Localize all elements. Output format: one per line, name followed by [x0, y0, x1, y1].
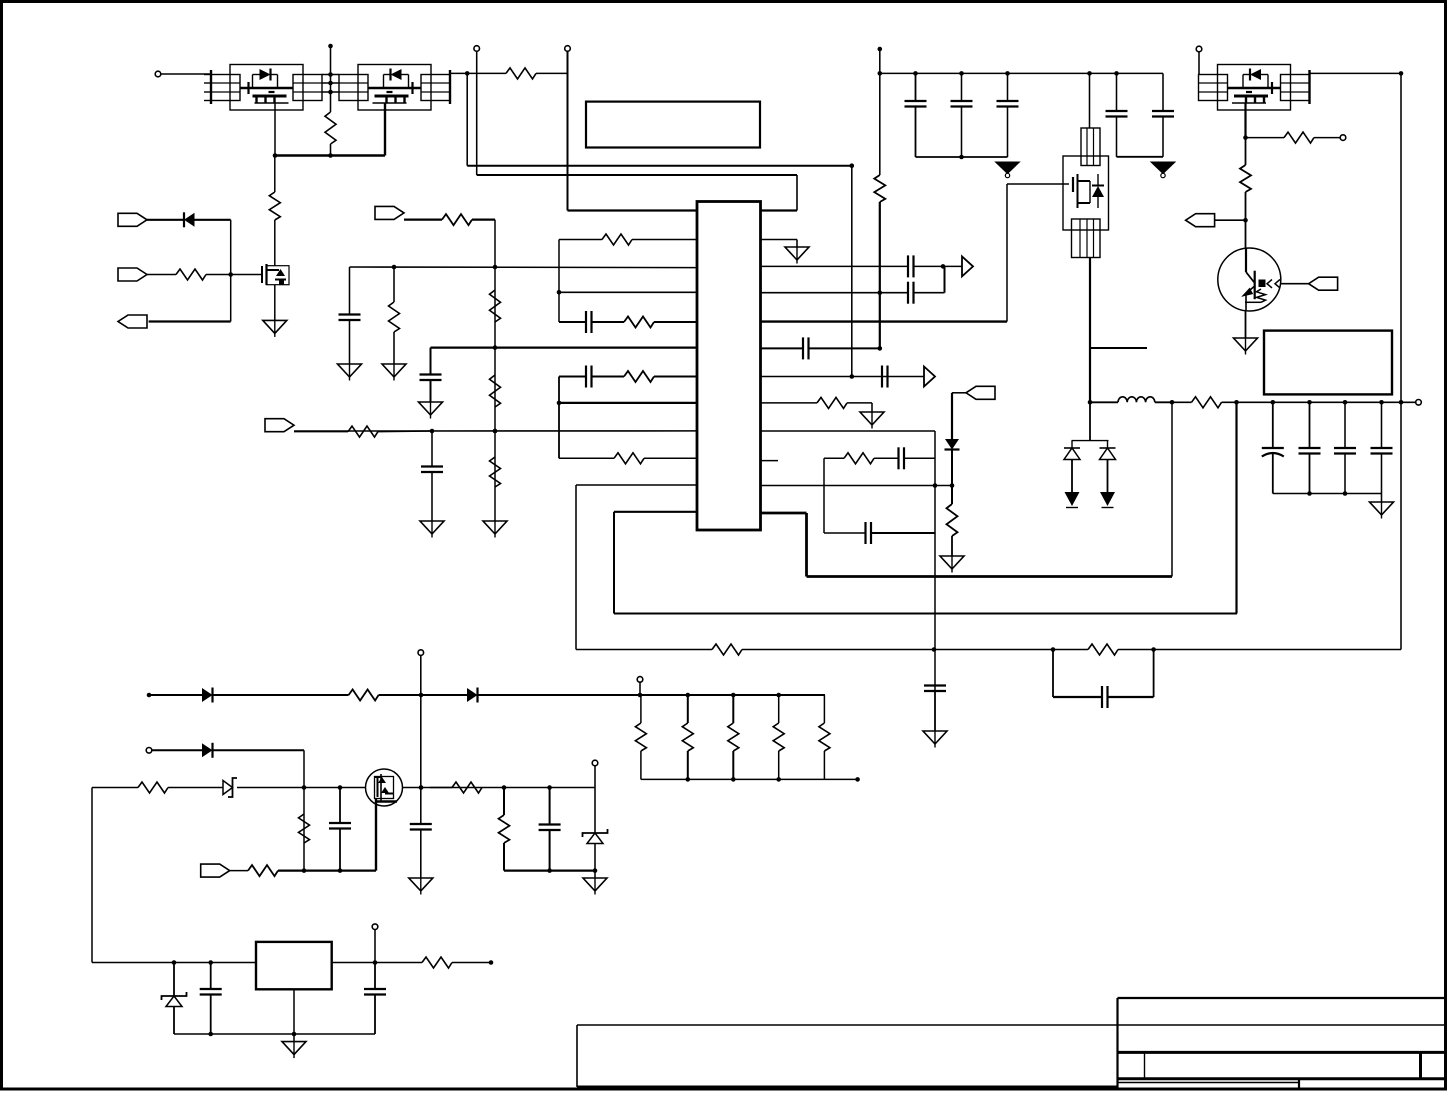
wire R4 to terminal leg: [536, 72, 568, 74]
wire VG_T down: [594, 766, 596, 788]
ground IC pin2R: [785, 247, 809, 264]
junction bus B pin8: [557, 401, 562, 406]
wire C26 top: [210, 963, 212, 990]
resistor R28: [452, 782, 482, 793]
junction divider fb: [493, 429, 498, 434]
wire rail node to R23: [1172, 401, 1192, 403]
terminal TP2: [565, 46, 571, 52]
junction cap2 tap: [959, 71, 964, 76]
capacitor C8: [803, 337, 809, 359]
wire node G1 to connector: [149, 320, 231, 322]
wire IC pin4: [559, 291, 697, 293]
load R4 bottom leg: [778, 751, 780, 779]
resistor R7: [624, 371, 654, 382]
net BOOT horizontal: [467, 165, 852, 167]
wire C24 top: [339, 788, 341, 824]
ground input caps 2: [1151, 162, 1175, 178]
wire D1 to node G1: [195, 219, 231, 221]
wire pin3 net corner down: [349, 267, 351, 315]
wire SD down: [951, 393, 953, 439]
wire Q5 base right: [1280, 283, 1309, 285]
junction vg bus: [547, 868, 552, 873]
input cap leg 2b: [961, 107, 963, 158]
junction pin7R boot end: [850, 374, 855, 379]
capacitor C14: [905, 101, 927, 107]
wire C25 down: [549, 830, 551, 871]
wire VIN to Q3: [1089, 73, 1091, 128]
node AUX1: [147, 693, 152, 698]
capacitor C22: [1371, 448, 1393, 454]
ground C12: [923, 731, 947, 748]
outcap leg 3b: [1344, 454, 1346, 494]
signal arrow OUT2: [924, 367, 935, 387]
junction outcap 3: [1343, 400, 1348, 405]
wire R15 corner: [847, 402, 872, 404]
reg output row: [332, 962, 422, 964]
diode D4: [1100, 441, 1116, 508]
resistor RL2: [682, 723, 693, 751]
wire IC pin8: [559, 402, 697, 404]
wire TP3 down: [1198, 52, 1200, 75]
load R2 bottom leg: [687, 751, 689, 779]
transistor Q5: [1218, 248, 1281, 311]
wire R16 to C10: [874, 457, 899, 459]
junction load rail 4: [776, 693, 781, 698]
diode D6: [467, 688, 478, 703]
wire IC pin6R: [761, 347, 804, 349]
wire PWM_L to R2: [147, 274, 176, 276]
pin bus right of Q4: [1308, 70, 1310, 104]
terminal LOAD_T: [637, 677, 643, 683]
signal arrow OUT1: [962, 256, 973, 276]
dual MOSFET package Q1B: [339, 65, 450, 111]
input cap leg 4b: [1116, 117, 1118, 157]
wire R10 to divider top: [472, 219, 495, 221]
wire C3 to ground: [431, 472, 433, 521]
wire C10 to comp vertical: [904, 457, 935, 459]
junction rail at sense: [1399, 400, 1404, 405]
capacitor C4: [339, 315, 361, 321]
resistor R19: [1088, 644, 1118, 655]
wire Q3 source to diode bar: [1089, 402, 1091, 440]
wire vg leg 2: [549, 788, 551, 825]
wire loop leg A down: [575, 485, 577, 650]
wire C27 top: [374, 963, 376, 990]
capacitor C24: [329, 823, 351, 829]
wire AUX_T down: [420, 656, 422, 824]
junction vg node 1: [502, 785, 507, 790]
wire IC pin5 cap leg: [559, 321, 586, 323]
junction pin4R at VIN leg: [878, 290, 883, 295]
terminal REG_T: [372, 924, 378, 930]
resistor R17: [947, 504, 958, 536]
comp row RC top leg: [824, 457, 844, 459]
wire Z2 down: [594, 844, 596, 871]
wire IC pin3R: [761, 265, 909, 267]
pin row wires between packages: [322, 75, 339, 93]
resistor R22: [1240, 165, 1251, 192]
junction aux2 at gate row: [302, 785, 307, 790]
inductor L1: [1118, 397, 1155, 403]
title block row line 1: [1118, 1024, 1447, 1026]
wire IC pin7R: [761, 376, 925, 378]
wire J1 to Q-module bus: [161, 73, 211, 75]
ground R17: [940, 556, 964, 573]
junction comp at return: [932, 647, 937, 652]
zener Z3: [162, 992, 187, 1007]
input cap leg 1b: [915, 107, 917, 158]
resistor R2: [176, 269, 206, 280]
wire C23 to ground: [420, 830, 422, 879]
terminal AUX_T: [418, 650, 424, 656]
comp vertical left: [823, 458, 825, 533]
resistor R9: [348, 426, 378, 437]
wire EN to R27: [230, 870, 248, 872]
aux rail 2 a: [152, 749, 202, 751]
junction RC par left: [1051, 647, 1056, 652]
net FB return (y650) left: [576, 649, 712, 651]
aux rail 2 b: [213, 749, 305, 751]
wire C7 right: [914, 292, 945, 294]
resistor R21: [1284, 132, 1314, 143]
junction base node: [1243, 218, 1248, 223]
wire IC pin1 left: [568, 209, 698, 211]
junction out node: [941, 264, 946, 269]
wire pin1R up: [796, 175, 798, 211]
wire vg leg 3: [594, 788, 596, 834]
junction divider pin3: [493, 265, 498, 270]
resistor R27: [248, 865, 278, 876]
zener Z1: [223, 778, 237, 797]
pin bus left of Q1A: [204, 70, 211, 104]
source bus of Q1A/Q1B: [275, 154, 385, 157]
wire gate feed right: [1007, 183, 1069, 185]
capacitor C23: [410, 824, 432, 830]
ground divider: [483, 521, 507, 538]
capacitor C27: [364, 989, 386, 995]
input cap leg 3b: [1007, 107, 1009, 158]
wire loop leg B down: [613, 512, 615, 614]
load bank bus: [641, 778, 858, 780]
capacitor C11: [866, 522, 872, 544]
title block cell divider right: [1419, 1052, 1422, 1078]
wire pin10 from bus B: [559, 457, 614, 459]
net PGND return (y613): [614, 613, 1237, 615]
junction vg bus end: [593, 868, 598, 873]
wire PGND leg up: [1235, 402, 1237, 613]
node VIN tap: [878, 47, 883, 52]
junction VIN at Q3 feed: [1087, 71, 1092, 76]
junction comp mid: [933, 483, 938, 488]
junction reg in 2: [208, 960, 213, 965]
terminal J1: [155, 71, 161, 77]
Q3 bottom pin block: [1072, 219, 1101, 258]
wire IC pin3 long: [350, 266, 698, 269]
reg input row: [92, 962, 256, 964]
diode D1: [184, 212, 195, 227]
capacitor C1: [586, 311, 592, 333]
connector PWM_H: [118, 213, 147, 226]
ground C4: [338, 364, 362, 381]
junction bus A pin4: [557, 290, 562, 295]
junction FB node 1: [430, 429, 435, 434]
junction load rail 1: [638, 693, 643, 698]
junction outcap 1: [1271, 400, 1276, 405]
load R4 top leg: [778, 695, 780, 723]
capacitor C19 (polarized): [1262, 448, 1284, 457]
divider vertical: [494, 220, 496, 521]
ground C5: [419, 402, 443, 419]
load R3 top leg: [732, 695, 734, 723]
outcap bus to ground: [1381, 494, 1383, 503]
MOSFET package Q3: [1063, 156, 1109, 230]
resistor R3: [269, 192, 280, 220]
junction outcap 4: [1379, 400, 1384, 405]
connector PWM_L: [118, 268, 147, 281]
junction load bus 1: [686, 777, 691, 782]
junction pin row 3: [328, 90, 333, 95]
load R1 top leg: [640, 695, 642, 723]
terminal TP4: [1340, 135, 1346, 141]
load R3 bottom leg: [732, 751, 734, 779]
junction gate row 2: [338, 785, 343, 790]
resistor R12: [490, 375, 501, 407]
junction outcap bus 2: [1307, 491, 1312, 496]
junction boot corner: [850, 163, 855, 168]
resistor R15: [817, 397, 847, 408]
wire IC pin2 stub: [632, 239, 697, 241]
wire R30 to end: [452, 962, 489, 964]
comp bottom row left: [824, 532, 866, 534]
capacitor C12: [924, 686, 946, 692]
wire C26 bottom: [210, 995, 212, 1035]
dual MOSFET package Q1A: [211, 65, 322, 111]
wire Z3 top: [173, 963, 175, 997]
wire comp cap down leg: [934, 685, 936, 687]
outcap leg 4: [1381, 402, 1383, 448]
title block cell divider left: [1144, 1052, 1146, 1078]
wire IC pin12R: [761, 512, 807, 515]
net FB return (y650) mid: [742, 649, 1053, 651]
wire Q4 source down: [1244, 103, 1246, 138]
junction load rail 3: [731, 693, 736, 698]
resistor R6: [624, 317, 654, 328]
stub Q3 mid: [1090, 347, 1147, 349]
wire Q1B source down: [384, 103, 386, 156]
junction node G1: [228, 272, 233, 277]
load R2 top leg: [687, 695, 689, 723]
diode D5: [202, 688, 213, 703]
diode D3: [1064, 441, 1080, 508]
gate row c: [237, 787, 366, 789]
wire Q2 source down: [274, 285, 276, 321]
junction rail node B: [1234, 400, 1239, 405]
junction cap bus: [959, 155, 964, 160]
wire SD to corner: [952, 392, 966, 394]
junction Q4 out corner: [1399, 71, 1404, 76]
outcap leg 1: [1272, 402, 1274, 448]
resistor R25: [138, 782, 168, 793]
aux rail 1 d: [478, 694, 826, 696]
node load bus end: [855, 777, 860, 782]
wire pin7 cap leg: [559, 376, 586, 378]
ground C23: [409, 878, 433, 895]
resistor R16: [844, 453, 874, 464]
junction RC par right: [1151, 647, 1156, 652]
wire C1 to R6: [592, 321, 625, 323]
load R5 top leg: [823, 695, 825, 723]
junction reg bus 1: [208, 1032, 213, 1037]
node reg out end: [489, 960, 494, 965]
junction rail node A: [1170, 400, 1175, 405]
wire IC pin4R: [761, 292, 909, 294]
wire R17 to ground: [951, 536, 953, 556]
load R5 bottom leg: [823, 751, 825, 779]
wire to R21: [1246, 137, 1285, 139]
capacitor C15: [951, 101, 973, 107]
outcap ground bus: [1273, 493, 1382, 495]
wire R8 to IC pin10: [644, 457, 697, 459]
terminal TP1: [474, 46, 480, 52]
Q3 top pin block: [1081, 128, 1100, 166]
capacitor C21: [1334, 448, 1356, 454]
wire IC pin11R: [761, 485, 953, 487]
input cap leg 3: [1007, 73, 1009, 101]
wire pin4R up leg: [944, 266, 946, 292]
comp vertical right: [934, 431, 936, 731]
junction outcap bus 3: [1343, 491, 1348, 496]
capacitor C16: [997, 101, 1019, 107]
wire Q1A source down: [274, 103, 276, 156]
ground vg bus: [583, 878, 607, 895]
input cap leg 1: [915, 73, 917, 101]
wire R22 to base node: [1245, 192, 1247, 249]
wire R20 down thick: [879, 202, 881, 348]
outcap leg 2: [1309, 402, 1311, 448]
ground Q5: [1234, 338, 1258, 355]
input cap bus 2: [1117, 156, 1164, 158]
wire IC pin5R thick: [761, 320, 1008, 322]
wire R3 to Q2: [274, 220, 276, 266]
wire TP2 down: [567, 52, 569, 211]
wire Q6 source down: [375, 799, 377, 871]
diode D2: [945, 439, 960, 450]
title block outline: [1118, 998, 1447, 1089]
vg ground bus: [504, 869, 595, 871]
MOSFET Q6 (circled): [366, 769, 403, 806]
wire R5 to bus A: [559, 239, 602, 241]
net SW to resistor: [450, 72, 506, 74]
capacitor C20: [1299, 448, 1321, 454]
wire LOAD_T down: [639, 682, 641, 695]
wire C2 to R7: [592, 376, 625, 378]
input cap leg 2: [961, 73, 963, 101]
wire R7 to IC pin7: [654, 376, 697, 378]
input cap leg 5b: [1162, 117, 1164, 157]
wire reg gnd leg: [293, 989, 295, 1034]
connector CTRL: [1186, 214, 1215, 227]
capacitor C10: [899, 447, 905, 469]
resistor R1: [325, 112, 336, 144]
wire R1 to source bus: [330, 144, 332, 156]
connector EN: [201, 864, 230, 877]
wire gate row feed down: [91, 788, 93, 963]
wire CS leg up: [1171, 402, 1173, 576]
resistor R30: [422, 957, 452, 968]
wire IC pin9R: [761, 430, 936, 432]
net CS return (y576): [807, 575, 1173, 578]
net Q4 out right: [1310, 72, 1402, 74]
wire aux2 corner down: [303, 750, 305, 870]
net bias thick (to corner): [404, 219, 442, 221]
resistor R18: [712, 644, 742, 655]
connector VSENSE: [265, 419, 294, 432]
title block bottom strip: [1118, 1079, 1300, 1090]
junction pin3 R14: [392, 265, 397, 270]
capacitor C18: [1152, 111, 1174, 117]
wire pin2R down: [796, 240, 798, 248]
connector SD: [966, 386, 995, 399]
wire C8 to VIN leg: [809, 347, 880, 349]
wire R14 to ground: [393, 332, 395, 364]
MOSFET Q3 symbol: [1069, 174, 1104, 208]
regulator U2: [256, 942, 332, 989]
wire VIN tap down: [879, 49, 881, 175]
wire C24 bottom: [339, 829, 341, 871]
junction reg bus 2: [292, 1032, 297, 1037]
ground C3: [420, 521, 444, 538]
bus B vertical: [558, 377, 560, 459]
resistor R23: [1192, 397, 1222, 408]
wire Q4 node down: [1245, 138, 1247, 165]
wire REG_T down: [374, 930, 376, 963]
zener Z2: [583, 829, 608, 844]
load R1 bottom leg: [640, 751, 642, 779]
capacitor C13: [1102, 686, 1108, 708]
junction FB node 2: [493, 429, 498, 434]
wire R29 down: [503, 843, 505, 871]
input cap bus: [916, 156, 1008, 158]
capacitor C25: [539, 825, 561, 831]
MOSFET Q2: [262, 264, 289, 285]
wire bus to Q2 drain: [274, 156, 276, 193]
junction reg out: [373, 960, 378, 965]
junction load rail 2: [686, 693, 691, 698]
ground pin8R: [860, 412, 884, 429]
aux rail 1 a: [151, 694, 202, 696]
wire VOUT sense down: [1400, 73, 1402, 649]
wire R21 to terminal: [1314, 137, 1340, 139]
resistor RL1: [635, 723, 646, 751]
resistor R14: [389, 302, 400, 332]
wire R6 to IC pin5: [654, 321, 697, 323]
diode top bar: [1072, 440, 1109, 442]
node VIN stub: [328, 44, 333, 49]
junction aux1 tap: [419, 693, 424, 698]
wire vg bus to ground: [594, 871, 596, 878]
wire Q3 source down: [1089, 258, 1091, 403]
junction Q3 source at rail: [1088, 400, 1093, 405]
wire R19 leads: [1053, 649, 1088, 651]
gate row a: [92, 787, 138, 789]
terminal TP3: [1196, 46, 1202, 52]
stub IC pin10R: [761, 460, 779, 462]
wire rail Q3 to L1: [1090, 401, 1118, 403]
wire PWM_H to D1: [147, 219, 184, 221]
junction divider vref: [493, 345, 498, 350]
wire R23 to caps: [1222, 401, 1416, 403]
connector BIAS: [375, 206, 404, 219]
